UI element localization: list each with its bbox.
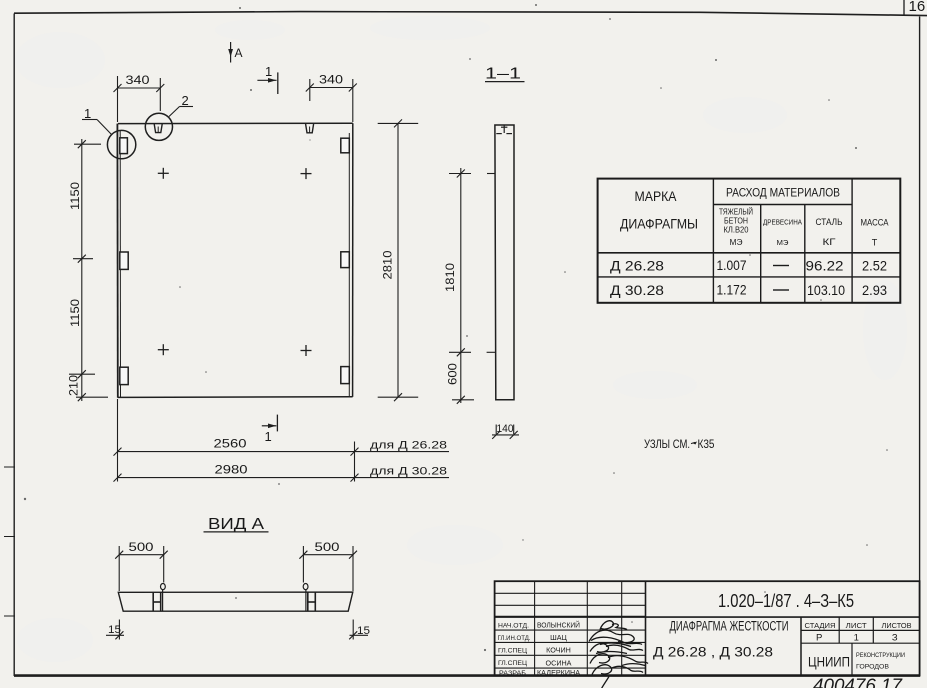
right edge plate bottom	[341, 367, 350, 384]
svg-text:ГОРОДОВ: ГОРОДОВ	[856, 665, 889, 671]
svg-text:ОСИНА: ОСИНА	[546, 658, 572, 667]
section mark 1 bottom	[262, 415, 278, 444]
view A title	[204, 516, 269, 533]
view A lifting loop left	[153, 584, 165, 612]
view A arrow	[228, 42, 242, 63]
centre cross marks	[158, 168, 312, 356]
left edge plate top (detail 1)	[120, 138, 128, 154]
dimension 2560 bottom	[114, 399, 450, 482]
svg-text:15: 15	[357, 625, 370, 637]
svg-text:КГ: КГ	[823, 237, 836, 247]
svg-text:РАСХОД МАТЕРИАЛОВ: РАСХОД МАТЕРИАЛОВ	[726, 186, 840, 200]
svg-text:ГЛ.ИН.ОТД.: ГЛ.ИН.ОТД.	[498, 635, 531, 642]
section 1-1 body	[495, 125, 514, 400]
dimension 500 right	[299, 546, 357, 591]
title block outer	[495, 581, 920, 675]
leader 1	[82, 106, 112, 135]
svg-text:500: 500	[129, 540, 154, 554]
svg-text:2980: 2980	[215, 463, 248, 477]
svg-text:400476 17: 400476 17	[813, 676, 903, 688]
svg-text:2810: 2810	[381, 250, 395, 279]
PANEL OUTLINE (front view)	[117, 123, 352, 397]
svg-text:ГЛ.СПЕЦ: ГЛ.СПЕЦ	[498, 660, 527, 667]
svg-text:МАССА: МАССА	[861, 218, 889, 228]
svg-text:ЛИСТ: ЛИСТ	[846, 623, 868, 630]
svg-text:1: 1	[854, 633, 859, 644]
dimension chain left 1150/1150/210	[69, 139, 108, 401]
title block names	[537, 621, 580, 678]
svg-text:КОЧИН: КОЧИН	[546, 646, 571, 655]
svg-text:1: 1	[84, 106, 91, 121]
table row Д 30.28	[610, 283, 887, 299]
svg-text:ДИАФРАГМА ЖЕСТКОСТИ: ДИАФРАГМА ЖЕСТКОСТИ	[670, 619, 789, 634]
svg-text:16: 16	[909, 0, 926, 15]
view A lifting loop right	[303, 584, 315, 612]
svg-text:для Д 26.28: для Д 26.28	[370, 440, 447, 452]
svg-text:1–1: 1–1	[485, 66, 521, 83]
svg-text:З: З	[892, 633, 898, 644]
svg-text:К35: К35	[698, 439, 715, 451]
svg-text:1.172: 1.172	[717, 283, 747, 298]
title block signature rows	[495, 630, 646, 668]
svg-text:Д 30.28: Д 30.28	[610, 283, 664, 298]
svg-text:500: 500	[315, 540, 340, 554]
svg-text:НАЧ.ОТД.: НАЧ.ОТД.	[498, 622, 529, 629]
svg-text:15: 15	[108, 624, 121, 636]
svg-text:340: 340	[126, 73, 150, 87]
svg-text:A: A	[235, 46, 243, 60]
svg-text:БЕТОН: БЕТОН	[724, 217, 748, 226]
svg-text:103.10: 103.10	[807, 283, 845, 298]
svg-text:ДИАФРАГМЫ: ДИАФРАГМЫ	[620, 217, 698, 232]
svg-text:2.93: 2.93	[862, 283, 887, 298]
top edge connector plate right	[306, 124, 314, 133]
detail circle 2	[145, 113, 172, 140]
svg-text:1810: 1810	[443, 263, 457, 292]
dimension 15 right	[349, 620, 368, 640]
svg-text:ДРЕВЕСИНА: ДРЕВЕСИНА	[763, 220, 802, 227]
svg-text:1: 1	[265, 64, 272, 79]
dimension 2980 bottom	[114, 474, 450, 482]
svg-text:ЦНИИП: ЦНИИП	[808, 655, 850, 670]
column header древесина	[763, 220, 802, 248]
svg-text:для Д 30.28: для Д 30.28	[370, 466, 447, 478]
right edge plate top	[341, 138, 350, 153]
leader 2	[169, 93, 193, 117]
svg-text:600: 600	[446, 363, 460, 385]
section 1-1 label	[485, 66, 525, 83]
svg-text:ВИД А: ВИД А	[208, 516, 264, 533]
dimension 15 left	[106, 620, 124, 640]
svg-text:1.007: 1.007	[717, 258, 747, 273]
svg-text:ГЛ.СПЕЦ: ГЛ.СПЕЦ	[498, 647, 527, 654]
title block stage grid	[646, 617, 920, 676]
left edge plate bottom	[120, 367, 128, 384]
column header сталь	[816, 217, 843, 247]
right edge plate middle	[341, 252, 350, 268]
table row Д 26.28	[610, 258, 887, 274]
column header масса	[861, 218, 889, 248]
svg-text:210: 210	[67, 375, 81, 396]
svg-text:ТЯЖЕЛЫЙ: ТЯЖЕЛЫЙ	[719, 208, 753, 217]
svg-text:1150: 1150	[68, 299, 82, 327]
svg-text:ЛИСТОВ: ЛИСТОВ	[882, 623, 912, 630]
svg-text:МЭ: МЭ	[730, 238, 743, 247]
dimension chain section 1810/600	[449, 168, 496, 404]
svg-text:ВОЛЫНСКИЙ: ВОЛЫНСКИЙ	[537, 621, 580, 630]
view A profile body	[118, 592, 352, 611]
sheet index box 16	[904, 0, 925, 16]
dimension 340 left	[114, 76, 165, 122]
dimension 500 left	[115, 546, 168, 591]
title block role labels	[498, 622, 531, 677]
dimension 340 right	[306, 79, 357, 122]
left edge plate middle	[120, 252, 128, 269]
section mark 1 top	[257, 64, 277, 94]
signatures squiggles	[589, 621, 648, 688]
section 1-1 top joint detail	[496, 125, 512, 134]
materials table	[598, 179, 901, 303]
fold marks left edge	[4, 467, 15, 616]
svg-text:СТАЛЬ: СТАЛЬ	[816, 217, 843, 227]
svg-text:КАДЕРКИНА: КАДЕРКИНА	[537, 668, 580, 677]
column header бетон	[719, 208, 753, 248]
svg-text:1: 1	[265, 429, 272, 444]
svg-text:96.22: 96.22	[806, 259, 844, 274]
svg-text:1.020–1/87 . 4–З–К5: 1.020–1/87 . 4–З–К5	[718, 591, 854, 611]
note УЗЛЫ СМ.К35	[644, 439, 715, 451]
svg-text:КЛ.В20: КЛ.В20	[724, 226, 750, 235]
top edge connector plate left (detail 2)	[154, 124, 162, 133]
svg-text:МЭ: МЭ	[777, 240, 789, 247]
svg-text:Д 26.28 , Д 30.28: Д 26.28 , Д 30.28	[653, 644, 773, 660]
svg-text:1150: 1150	[68, 182, 82, 210]
svg-text:2560: 2560	[214, 437, 247, 451]
svg-text:РАЗРАБ: РАЗРАБ	[499, 670, 527, 677]
svg-text:Д 26.28: Д 26.28	[610, 259, 664, 274]
svg-text:2.52: 2.52	[862, 259, 887, 274]
svg-text:140: 140	[497, 423, 514, 435]
svg-text:340: 340	[319, 73, 343, 87]
svg-text:МАРКА: МАРКА	[635, 189, 677, 204]
svg-text:Р: Р	[816, 633, 822, 644]
svg-text:ШАЦ: ШАЦ	[550, 633, 567, 642]
title block upper-left empty rows	[495, 581, 646, 675]
svg-text:2: 2	[182, 93, 189, 108]
detail circle 1	[107, 130, 135, 158]
svg-text:РЕКОНСТРУКЦИИ: РЕКОНСТРУКЦИИ	[856, 653, 905, 659]
dimension 140	[492, 425, 519, 439]
svg-text:Т: Т	[872, 238, 878, 248]
svg-text:УЗЛЫ СМ.: УЗЛЫ СМ.	[644, 439, 690, 451]
dimension 2810 right	[378, 119, 419, 401]
svg-text:СТАДИЯ: СТАДИЯ	[805, 623, 836, 630]
